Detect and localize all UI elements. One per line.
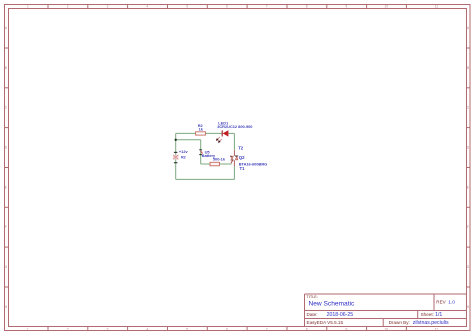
svg-text:500-1k: 500-1k <box>213 157 226 162</box>
svg-text:10: 10 <box>384 4 388 8</box>
svg-text:9: 9 <box>346 327 348 331</box>
svg-text:9: 9 <box>346 4 348 8</box>
svg-text:7: 7 <box>266 327 268 331</box>
svg-text:C: C <box>467 106 470 110</box>
svg-text:4: 4 <box>146 327 148 331</box>
svg-text:Sheet:: Sheet: <box>421 312 434 317</box>
svg-text:Q2: Q2 <box>239 155 245 160</box>
svg-text:Drawn By:: Drawn By: <box>389 320 410 325</box>
LED LED1 symbol <box>216 130 229 143</box>
svg-text:3CR2UC12 800-900: 3CR2UC12 800-900 <box>217 124 252 129</box>
svg-text:A: A <box>5 26 8 30</box>
wire right vertical from triac T1 pin <box>233 166 235 179</box>
svg-text:11: 11 <box>435 327 439 331</box>
svg-text:8: 8 <box>306 327 308 331</box>
svg-text:G: G <box>467 265 470 269</box>
svg-text:8: 8 <box>306 4 308 8</box>
svg-text:6: 6 <box>226 327 228 331</box>
svg-text:5: 5 <box>186 4 188 8</box>
svg-text:TITLE:: TITLE: <box>307 295 318 299</box>
svg-text:6: 6 <box>226 4 228 8</box>
svg-text:G: G <box>5 265 8 269</box>
svg-text:1: 1 <box>27 327 29 331</box>
svg-text:D: D <box>467 146 470 150</box>
wire bottom horizontal <box>176 178 235 180</box>
svg-text:10: 10 <box>384 327 388 331</box>
svg-text:H: H <box>467 305 470 309</box>
svg-text:7: 7 <box>266 4 268 8</box>
svg-text:F: F <box>467 225 469 229</box>
wire branch bottom to resistor 500-1k <box>201 163 210 165</box>
svg-text:C: C <box>5 106 8 110</box>
svg-text:Date:: Date: <box>307 312 318 317</box>
svg-text:5: 5 <box>186 327 188 331</box>
svg-text:2018-06-25: 2018-06-25 <box>327 312 354 318</box>
svg-text:1.0: 1.0 <box>448 300 455 306</box>
svg-text:2: 2 <box>67 4 69 8</box>
svg-text:B: B <box>5 66 7 70</box>
wire top: left corner to R2 <box>176 132 196 134</box>
svg-text:3: 3 <box>107 4 109 8</box>
wire left vertical through battery R2 <box>175 133 177 179</box>
battery R2 +12v supply symbol <box>173 152 179 162</box>
svg-text:1: 1 <box>27 4 29 8</box>
resistor 500-1k body <box>210 162 220 166</box>
node A junction dot <box>175 139 177 141</box>
svg-text:New Schematic: New Schematic <box>309 301 356 308</box>
svg-text:zilvinas.peciulis: zilvinas.peciulis <box>413 320 449 326</box>
resistor R2 body <box>196 132 206 135</box>
svg-text:F: F <box>5 225 7 229</box>
triac Q2 symbol <box>230 150 238 166</box>
wire top: R2 to LED1 cathode <box>205 132 222 134</box>
wire branch vertical through battery U5 <box>200 140 202 164</box>
svg-text:E: E <box>467 185 469 189</box>
svg-text:H: H <box>5 305 8 309</box>
battery U5 symbol <box>199 150 202 155</box>
svg-text:A: A <box>467 26 470 30</box>
wire top: LED1 anode to top-right corner <box>228 132 234 134</box>
wire right vertical to triac T2 pin <box>233 133 235 150</box>
wire branch horizontal from node A to battery U5 <box>176 139 201 141</box>
svg-text:1k: 1k <box>199 127 204 132</box>
title block <box>305 294 467 327</box>
svg-text:REV: REV <box>436 300 446 305</box>
svg-text:+12v: +12v <box>179 149 189 154</box>
svg-text:T1: T1 <box>240 166 246 171</box>
wire resistor 500-1k to triac gate <box>220 163 232 165</box>
svg-text:11: 11 <box>435 4 439 8</box>
svg-text:1/1: 1/1 <box>435 312 442 318</box>
svg-text:E: E <box>5 185 7 189</box>
svg-text:EasyEDA V5.5.15: EasyEDA V5.5.15 <box>307 320 344 325</box>
svg-text:2: 2 <box>67 327 69 331</box>
svg-text:R2: R2 <box>181 156 186 160</box>
svg-text:D: D <box>5 146 8 150</box>
svg-text:4: 4 <box>146 4 148 8</box>
svg-text:B: B <box>467 66 469 70</box>
svg-text:T2: T2 <box>238 145 244 150</box>
svg-text:3: 3 <box>107 327 109 331</box>
